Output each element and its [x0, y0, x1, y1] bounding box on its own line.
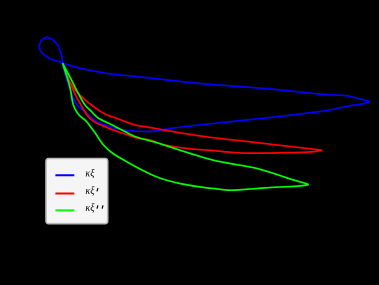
svg-text:κξ: κξ	[85, 203, 95, 214]
svg-text:κξ: κξ	[85, 169, 95, 180]
svg-text:κξ: κξ	[85, 186, 95, 197]
